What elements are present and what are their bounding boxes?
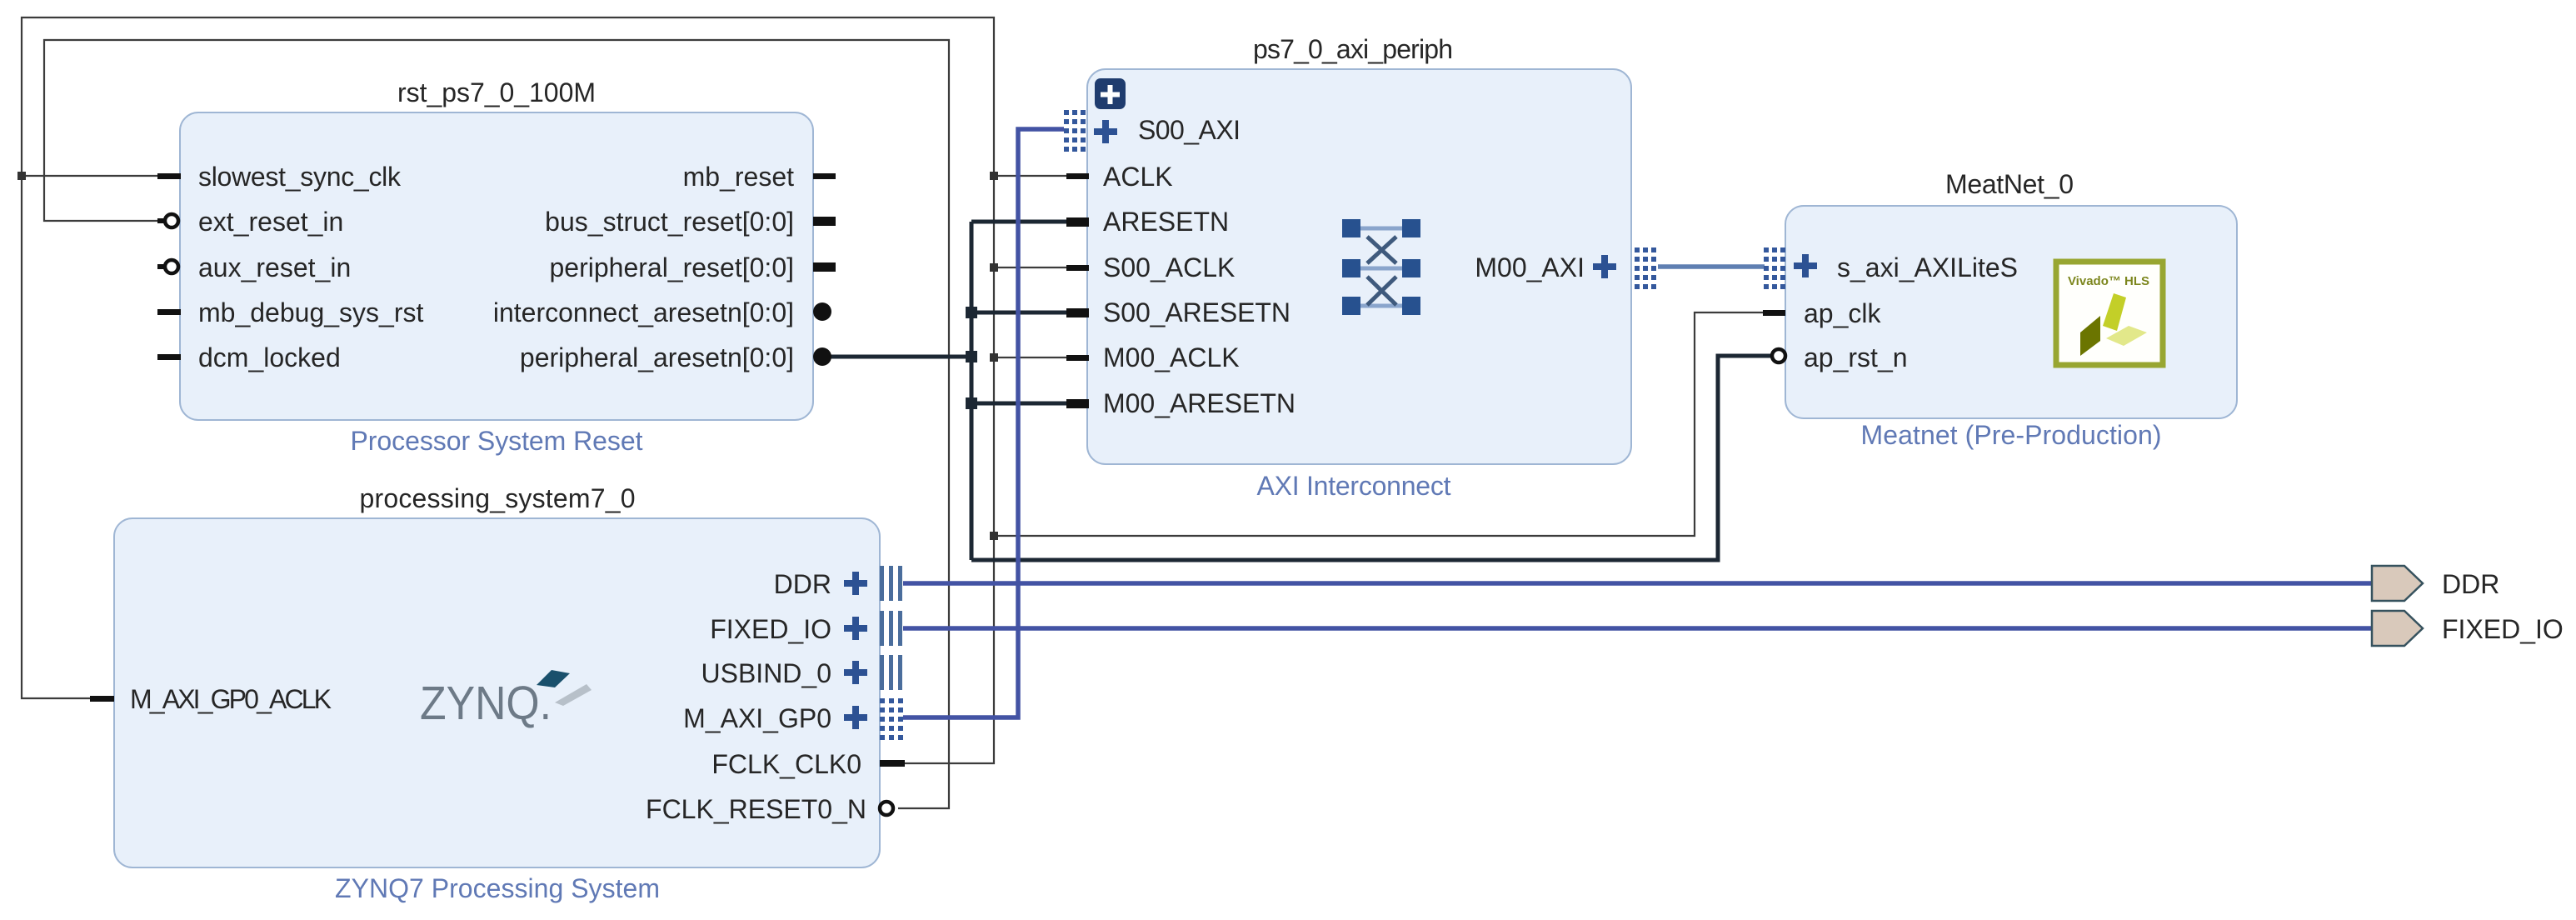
pin mb_debug_sys_rst xyxy=(157,309,181,315)
svg-text:dcm_locked: dcm_locked xyxy=(198,342,341,372)
junction clock S00_ACLK xyxy=(990,263,998,272)
svg-text:Processor System Reset: Processor System Reset xyxy=(351,426,643,456)
logo ZYNQ xyxy=(420,670,592,730)
junction clock M00_ACLK xyxy=(990,353,998,362)
svg-text:FCLK_CLK0: FCLK_CLK0 xyxy=(711,749,861,779)
pin peripheral_aresetn[0:0] xyxy=(813,347,831,366)
pin ap_rst_n xyxy=(1772,349,1785,362)
block rst_ps7_0_100M (Processor System Reset) xyxy=(180,77,813,456)
svg-text:ext_reset_in: ext_reset_in xyxy=(198,207,343,237)
svg-text:FIXED_IO: FIXED_IO xyxy=(710,614,831,644)
pin mb_reset xyxy=(813,173,836,179)
svg-text:M_AXI_GP0: M_AXI_GP0 xyxy=(683,703,831,733)
svg-text:M_AXI_GP0_ACLK: M_AXI_GP0_ACLK xyxy=(130,684,332,714)
svg-text:bus_struct_reset[0:0]: bus_struct_reset[0:0] xyxy=(545,207,794,237)
wire DDR bus xyxy=(903,581,2372,586)
connector bars FIXED_IO xyxy=(880,611,902,646)
svg-text:ZYNQ.: ZYNQ. xyxy=(420,677,552,730)
pin M_AXI_GP0_ACLK xyxy=(90,696,114,702)
svg-text:S00_ACLK: S00_ACLK xyxy=(1103,252,1235,282)
wire FIXED_IO bus xyxy=(903,626,2372,631)
svg-text:peripheral_aresetn[0:0]: peripheral_aresetn[0:0] xyxy=(520,342,794,372)
pin slowest_sync_clk xyxy=(157,173,181,179)
connector bars USBIND_0 xyxy=(880,655,902,690)
junction aresetn input xyxy=(966,351,977,362)
svg-text:Meatnet (Pre-Production): Meatnet (Pre-Production) xyxy=(1861,420,2162,450)
junction clock ap_clk branch xyxy=(990,532,998,540)
pin M00_ARESETN xyxy=(1066,399,1089,408)
pin dcm_locked xyxy=(157,354,181,360)
svg-text:processing_system7_0: processing_system7_0 xyxy=(360,483,636,513)
icon Vivado HLS xyxy=(2056,262,2163,365)
pin bus_struct_reset[0:0] xyxy=(813,217,836,226)
junction clock ACLK xyxy=(990,172,998,180)
svg-text:ps7_0_axi_periph: ps7_0_axi_periph xyxy=(1253,34,1453,64)
svg-text:AXI Interconnect: AXI Interconnect xyxy=(1257,471,1451,501)
pin ACLK xyxy=(1066,173,1089,179)
junction aresetn M00_ARESETN xyxy=(966,397,977,409)
icon AXI interconnect crossbar xyxy=(1342,219,1420,315)
svg-text:interconnect_aresetn[0:0]: interconnect_aresetn[0:0] xyxy=(493,297,794,327)
svg-text:aux_reset_in: aux_reset_in xyxy=(198,252,351,282)
wire M_AXI_GP0 to S00_AXI (interface bus) xyxy=(903,129,1064,717)
svg-text:ARESETN: ARESETN xyxy=(1103,207,1229,237)
svg-text:DDR: DDR xyxy=(2442,569,2499,599)
svg-text:s_axi_AXILiteS: s_axi_AXILiteS xyxy=(1837,252,2018,282)
interface pin s_axi_AXILiteS xyxy=(1794,254,1817,277)
svg-text:USBIND_0: USBIND_0 xyxy=(701,658,832,688)
block processing_system7_0 (ZYNQ7 Processing System) xyxy=(114,483,880,903)
expand button xyxy=(1095,78,1126,109)
wire M00_AXI to s_axi_AXILiteS xyxy=(1658,264,1765,269)
pin ap_clk xyxy=(1763,310,1785,316)
pin peripheral_reset[0:0] xyxy=(813,262,836,272)
wire FCLK_RESET0_N to ext_reset_in xyxy=(44,40,949,808)
svg-text:ZYNQ7 Processing System: ZYNQ7 Processing System xyxy=(335,873,660,903)
svg-text:S00_ARESETN: S00_ARESETN xyxy=(1103,297,1290,327)
svg-text:S00_AXI: S00_AXI xyxy=(1138,115,1241,145)
svg-text:M00_ACLK: M00_ACLK xyxy=(1103,342,1240,372)
svg-text:M00_AXI: M00_AXI xyxy=(1475,252,1585,282)
junction clock at slowest_sync_clk xyxy=(17,172,26,180)
connector grid S00_AXI xyxy=(1064,110,1086,152)
pin S00_ARESETN xyxy=(1066,308,1089,317)
wire FCLK_CLK0 clock net xyxy=(22,17,1765,763)
svg-text:FIXED_IO: FIXED_IO xyxy=(2442,614,2564,644)
connector grid M_AXI_GP0 xyxy=(880,698,903,740)
svg-text:rst_ps7_0_100M: rst_ps7_0_100M xyxy=(397,77,596,107)
svg-text:ap_rst_n: ap_rst_n xyxy=(1804,342,1908,372)
connector grid M00_AXI xyxy=(1635,247,1656,289)
connector bars DDR xyxy=(880,566,902,601)
svg-text:peripheral_reset[0:0]: peripheral_reset[0:0] xyxy=(549,252,794,282)
pin interconnect_aresetn[0:0] xyxy=(813,302,831,321)
svg-text:mb_reset: mb_reset xyxy=(683,162,795,192)
svg-text:DDR: DDR xyxy=(774,569,831,599)
wire peripheral_aresetn net (bus) xyxy=(829,222,1772,560)
pin S00_ACLK xyxy=(1066,265,1089,271)
svg-text:slowest_sync_clk: slowest_sync_clk xyxy=(198,162,402,192)
external port FIXED_IO xyxy=(2372,611,2423,646)
pin M00_ACLK xyxy=(1066,355,1089,361)
connector grid s_axi_AXILiteS xyxy=(1764,247,1785,289)
svg-text:M00_ARESETN: M00_ARESETN xyxy=(1103,388,1295,418)
svg-text:MeatNet_0: MeatNet_0 xyxy=(1945,169,2074,199)
block ps7_0_axi_periph (AXI Interconnect) xyxy=(1087,34,1631,501)
interface pin S00_AXI xyxy=(1094,120,1117,143)
block MeatNet_0 (Meatnet Pre-Production) xyxy=(1785,169,2237,450)
external port DDR xyxy=(2372,566,2423,601)
pin ARESETN xyxy=(1066,217,1089,227)
svg-text:Vivado™ HLS: Vivado™ HLS xyxy=(2068,274,2149,288)
junction aresetn S00_ARESETN xyxy=(966,307,977,318)
svg-text:FCLK_RESET0_N: FCLK_RESET0_N xyxy=(646,794,866,824)
svg-text:ACLK: ACLK xyxy=(1103,162,1173,192)
pin aux_reset_in xyxy=(157,264,166,269)
svg-text:ap_clk: ap_clk xyxy=(1804,298,1882,328)
svg-text:mb_debug_sys_rst: mb_debug_sys_rst xyxy=(198,297,423,327)
pin ext_reset_in xyxy=(157,218,166,223)
